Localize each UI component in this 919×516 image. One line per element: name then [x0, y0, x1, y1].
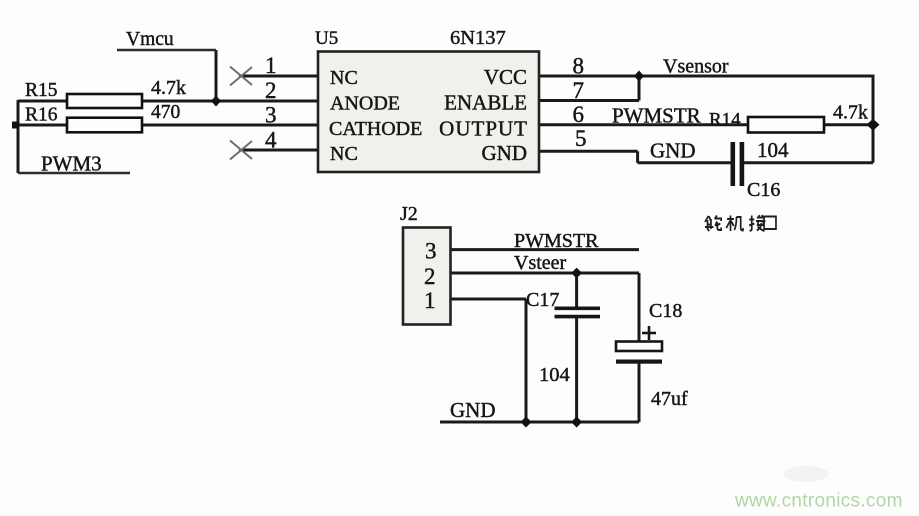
- svg-text:2: 2: [424, 264, 436, 289]
- svg-text:NC: NC: [330, 143, 358, 165]
- svg-text:6: 6: [573, 102, 585, 127]
- svg-text:47uf: 47uf: [651, 388, 688, 410]
- svg-text:8: 8: [573, 54, 585, 79]
- svg-text:3: 3: [425, 239, 437, 264]
- svg-text:Vsteer: Vsteer: [514, 252, 567, 274]
- svg-text:C18: C18: [649, 300, 682, 322]
- svg-text:VCC: VCC: [484, 65, 527, 89]
- svg-text:Vmcu: Vmcu: [126, 29, 174, 50]
- svg-text:7: 7: [573, 78, 585, 103]
- svg-text:ENABLE: ENABLE: [444, 91, 527, 115]
- svg-text:GND: GND: [450, 398, 496, 422]
- svg-text:C17: C17: [526, 289, 559, 311]
- svg-text:C16: C16: [747, 179, 780, 201]
- svg-text:www.cntronics.com: www.cntronics.com: [734, 491, 903, 512]
- svg-text:4.7k: 4.7k: [151, 77, 186, 99]
- svg-text:1: 1: [424, 288, 436, 313]
- svg-text:4.7k: 4.7k: [833, 102, 868, 124]
- svg-text:2: 2: [265, 78, 277, 103]
- svg-text:ANODE: ANODE: [330, 93, 400, 115]
- svg-text:5: 5: [575, 126, 587, 151]
- svg-text:OUTPUT: OUTPUT: [439, 117, 528, 141]
- svg-text:PWM3: PWM3: [41, 152, 102, 176]
- svg-text:J2: J2: [400, 203, 418, 225]
- svg-text:R15: R15: [25, 80, 58, 101]
- svg-text:GND: GND: [482, 141, 528, 165]
- svg-text:PWMSTR: PWMSTR: [514, 230, 599, 252]
- svg-text:3: 3: [265, 103, 277, 128]
- svg-text:104: 104: [539, 364, 570, 386]
- svg-text:U5: U5: [315, 28, 338, 49]
- svg-text:NC: NC: [330, 67, 358, 89]
- svg-text:6N137: 6N137: [450, 27, 506, 49]
- svg-text:470: 470: [151, 102, 180, 123]
- svg-text:4: 4: [265, 128, 277, 153]
- svg-text:CATHODE: CATHODE: [329, 118, 422, 140]
- svg-text:1: 1: [265, 53, 277, 78]
- svg-text:104: 104: [757, 138, 789, 162]
- svg-text:Vsensor: Vsensor: [663, 56, 729, 78]
- svg-text:PWMSTR: PWMSTR: [612, 104, 701, 128]
- svg-text:R16: R16: [25, 105, 58, 126]
- svg-text:GND: GND: [650, 139, 696, 163]
- svg-text:R14: R14: [709, 110, 741, 131]
